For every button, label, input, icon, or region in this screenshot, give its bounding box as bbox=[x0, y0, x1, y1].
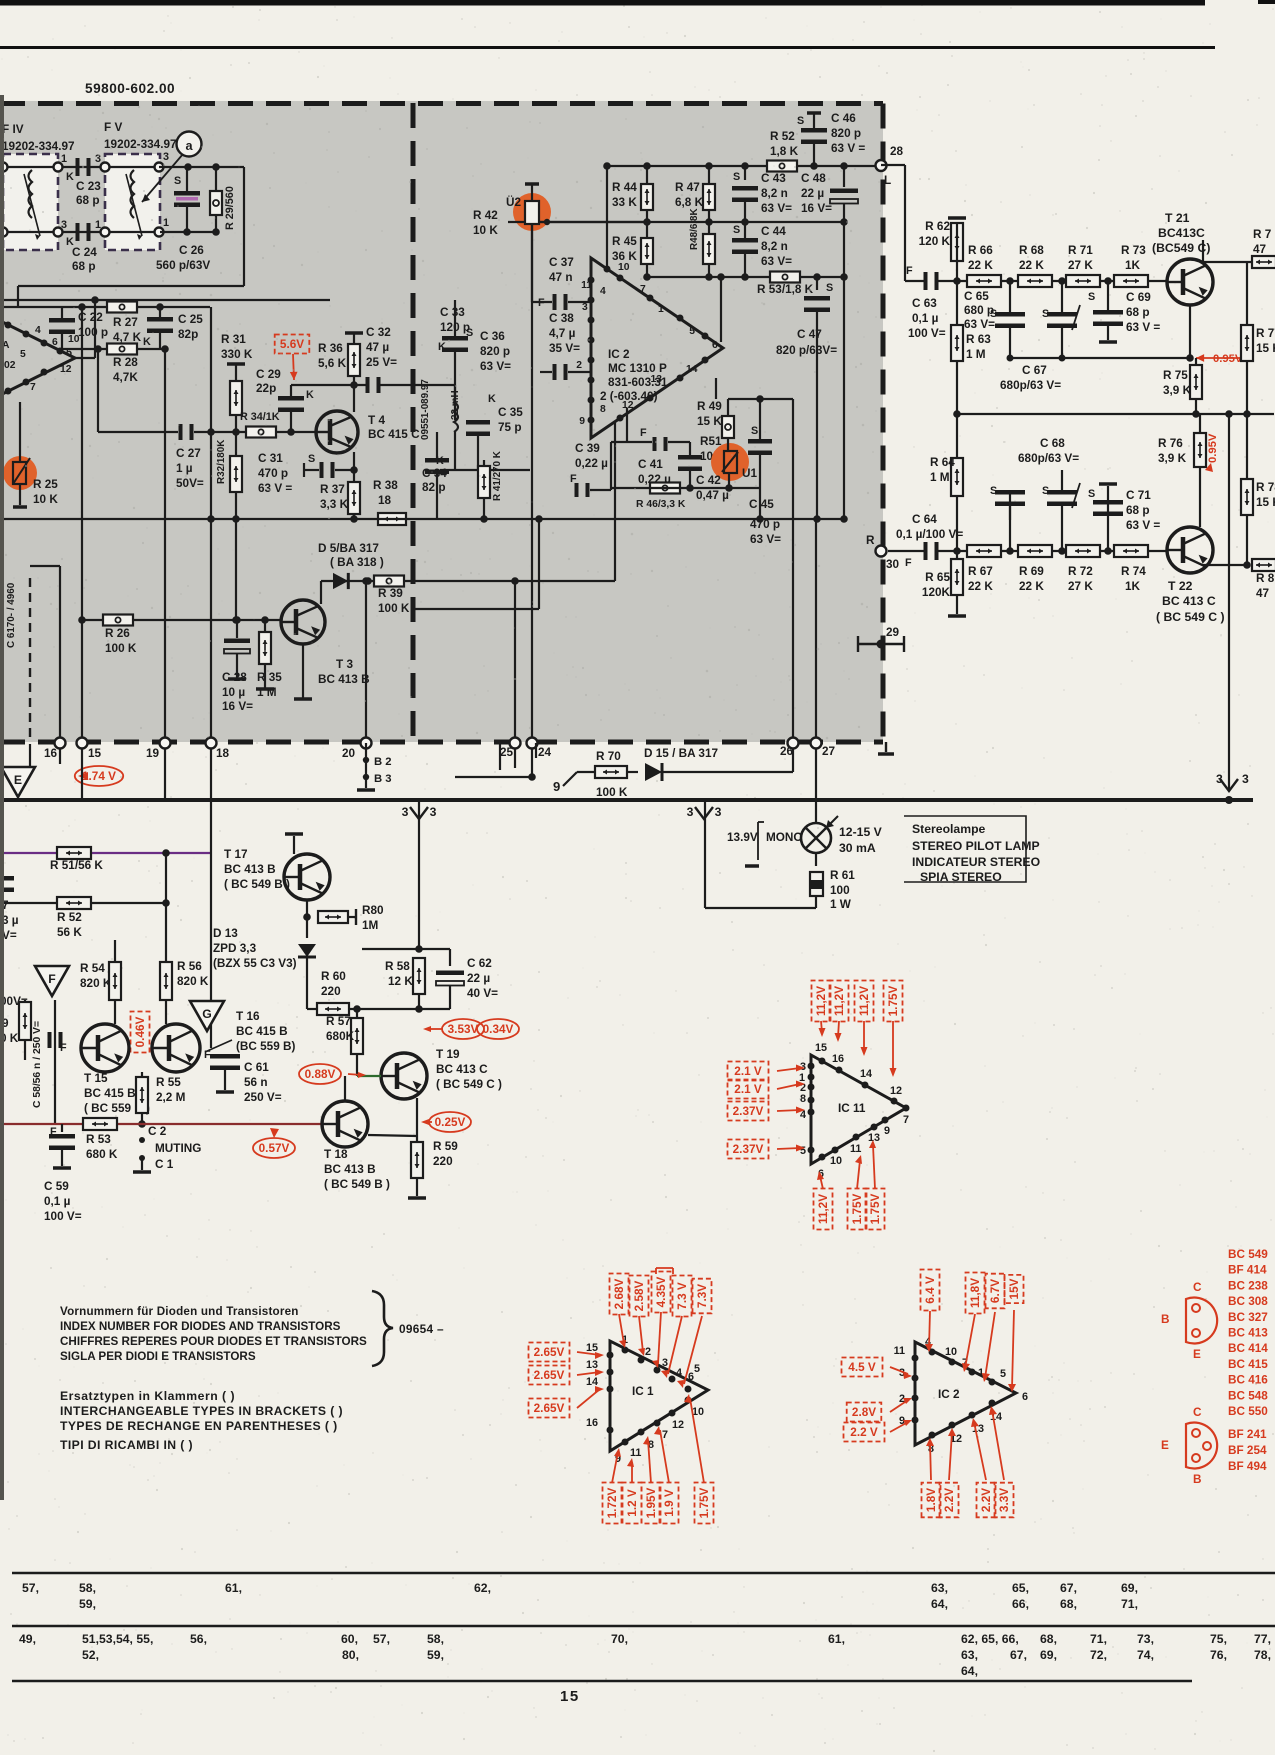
svg-text:10: 10 bbox=[618, 262, 630, 273]
svg-text:K: K bbox=[438, 341, 446, 353]
svg-text:2.37V: 2.37V bbox=[733, 1105, 764, 1118]
svg-text:61,: 61, bbox=[225, 1581, 242, 1595]
svg-text:BC 413 C: BC 413 C bbox=[436, 1063, 488, 1076]
svg-text:F IV: F IV bbox=[2, 123, 24, 136]
svg-text:R 63: R 63 bbox=[966, 333, 991, 346]
svg-text:C 59: C 59 bbox=[44, 1180, 69, 1193]
svg-text:1.2 V: 1.2 V bbox=[626, 1489, 639, 1517]
svg-text:4,7K: 4,7K bbox=[113, 371, 138, 384]
svg-text:22 mH: 22 mH bbox=[450, 390, 461, 420]
svg-text:L: L bbox=[884, 174, 891, 187]
svg-text:BF 494: BF 494 bbox=[1228, 1460, 1267, 1473]
svg-text:C 42: C 42 bbox=[696, 474, 721, 487]
svg-text:11: 11 bbox=[581, 280, 592, 291]
svg-text:F: F bbox=[640, 427, 647, 439]
svg-text:K: K bbox=[306, 389, 314, 401]
svg-text:K: K bbox=[436, 455, 444, 467]
svg-text:10 K: 10 K bbox=[473, 224, 498, 237]
svg-text:75 p: 75 p bbox=[498, 421, 522, 434]
svg-text:220: 220 bbox=[321, 985, 341, 998]
svg-text:63 V=: 63 V= bbox=[761, 255, 792, 268]
svg-text:15 K: 15 K bbox=[697, 415, 722, 428]
svg-text:3: 3 bbox=[163, 151, 169, 163]
svg-text:58,: 58, bbox=[427, 1632, 444, 1646]
svg-text:BC 415 B: BC 415 B bbox=[236, 1025, 288, 1038]
svg-text:5: 5 bbox=[694, 1363, 700, 1375]
svg-text:MONO: MONO bbox=[766, 831, 803, 844]
svg-text:T 17: T 17 bbox=[224, 848, 248, 861]
svg-text:330 K: 330 K bbox=[221, 348, 253, 361]
svg-text:C 32: C 32 bbox=[366, 326, 391, 339]
svg-text:68 p: 68 p bbox=[72, 260, 96, 273]
svg-text:15: 15 bbox=[586, 1342, 598, 1354]
svg-text:C 23: C 23 bbox=[76, 180, 101, 193]
svg-text:S: S bbox=[733, 224, 740, 236]
svg-text:R 44: R 44 bbox=[612, 181, 637, 194]
svg-text:2.58V: 2.58V bbox=[633, 1280, 646, 1311]
svg-text:INTERCHANGEABLE TYPES IN BR: INTERCHANGEABLE TYPES IN BRACKETS ( ) bbox=[60, 1404, 343, 1418]
svg-text:C 61: C 61 bbox=[244, 1061, 269, 1074]
svg-text:2.2 V: 2.2 V bbox=[850, 1426, 878, 1439]
svg-text:57,: 57, bbox=[22, 1581, 39, 1595]
svg-text:3: 3 bbox=[715, 805, 722, 819]
svg-text:62,: 62, bbox=[474, 1581, 491, 1595]
svg-text:10 K: 10 K bbox=[33, 493, 58, 506]
svg-text:F: F bbox=[905, 557, 912, 569]
svg-text:4: 4 bbox=[35, 325, 41, 336]
svg-text:680 p: 680 p bbox=[964, 304, 994, 317]
svg-text:15 K: 15 K bbox=[1256, 342, 1275, 355]
svg-text:R: R bbox=[866, 534, 875, 547]
svg-text:680p/63 V=: 680p/63 V= bbox=[1000, 379, 1061, 392]
svg-text:R 64: R 64 bbox=[930, 456, 955, 469]
svg-text:47: 47 bbox=[1253, 243, 1267, 256]
svg-text:G: G bbox=[202, 1007, 212, 1021]
svg-text:R 72: R 72 bbox=[1068, 565, 1093, 578]
svg-text:C 31: C 31 bbox=[258, 452, 283, 465]
svg-text:3.53V: 3.53V bbox=[448, 1023, 479, 1036]
svg-text:CHIFFRES REPERES POUR DIODES E: CHIFFRES REPERES POUR DIODES ET TRANSIST… bbox=[60, 1335, 367, 1348]
svg-text:1K: 1K bbox=[1125, 580, 1141, 593]
svg-text:3: 3 bbox=[95, 153, 101, 165]
svg-text:25 V=: 25 V= bbox=[366, 356, 397, 369]
svg-text:B: B bbox=[1193, 1473, 1202, 1486]
svg-text:BC 414: BC 414 bbox=[1228, 1342, 1268, 1355]
svg-text:1M: 1M bbox=[362, 919, 378, 932]
svg-text:15: 15 bbox=[88, 747, 102, 760]
svg-text:B 2: B 2 bbox=[374, 756, 392, 768]
svg-text:5,6 K: 5,6 K bbox=[318, 357, 347, 370]
svg-text:100 V=: 100 V= bbox=[908, 327, 946, 340]
svg-text:S: S bbox=[1042, 485, 1049, 497]
svg-text:1: 1 bbox=[163, 217, 169, 229]
svg-text:R 73: R 73 bbox=[1121, 244, 1146, 257]
svg-text:R 68: R 68 bbox=[1019, 244, 1044, 257]
svg-text:6: 6 bbox=[52, 337, 58, 348]
svg-text:15 K: 15 K bbox=[1256, 496, 1275, 509]
svg-text:F: F bbox=[48, 972, 56, 986]
svg-text:BC 415 C: BC 415 C bbox=[368, 428, 420, 441]
svg-text:R 53/1,8 K: R 53/1,8 K bbox=[757, 283, 814, 296]
svg-text:69,: 69, bbox=[1121, 1581, 1138, 1595]
svg-text:73,: 73, bbox=[1137, 1632, 1154, 1646]
svg-text:( BC 549 B ): ( BC 549 B ) bbox=[324, 1178, 390, 1191]
svg-text:68 p: 68 p bbox=[1126, 504, 1150, 517]
svg-text:82 p: 82 p bbox=[422, 481, 446, 494]
svg-text:5: 5 bbox=[689, 326, 695, 337]
svg-text:56,: 56, bbox=[190, 1632, 207, 1646]
svg-text:1 W: 1 W bbox=[830, 898, 852, 911]
svg-text:680p/63 V=: 680p/63 V= bbox=[1018, 452, 1079, 465]
svg-text:0.57V: 0.57V bbox=[259, 1142, 290, 1155]
svg-text:0,1 µ/100 V=: 0,1 µ/100 V= bbox=[896, 528, 963, 541]
svg-text:BC413C: BC413C bbox=[1158, 226, 1205, 240]
svg-text:C 48: C 48 bbox=[801, 172, 826, 185]
svg-text:C 43: C 43 bbox=[761, 172, 786, 185]
svg-text:B: B bbox=[1161, 1313, 1170, 1326]
svg-text:T 3: T 3 bbox=[336, 658, 353, 671]
svg-text:52,: 52, bbox=[82, 1648, 99, 1662]
svg-text:T 15: T 15 bbox=[84, 1072, 108, 1085]
svg-text:S: S bbox=[1088, 488, 1095, 500]
svg-text:D 15 / BA 317: D 15 / BA 317 bbox=[644, 747, 718, 760]
svg-text:3: 3 bbox=[430, 805, 437, 819]
svg-text:47 n: 47 n bbox=[549, 271, 573, 284]
svg-text:100 K: 100 K bbox=[596, 786, 628, 799]
svg-text:D 5/BA 317: D 5/BA 317 bbox=[318, 542, 379, 555]
svg-text:R 62: R 62 bbox=[925, 220, 950, 233]
svg-text:19202-334.97: 19202-334.97 bbox=[2, 140, 75, 153]
svg-text:02: 02 bbox=[4, 360, 16, 371]
svg-text:R 7: R 7 bbox=[1253, 228, 1272, 241]
svg-text:66,: 66, bbox=[1012, 1597, 1029, 1611]
svg-text:C 39: C 39 bbox=[575, 442, 600, 455]
svg-text:16 V=: 16 V= bbox=[222, 700, 253, 713]
svg-text:100 V=: 100 V= bbox=[44, 1210, 82, 1223]
svg-text:3: 3 bbox=[61, 219, 67, 231]
svg-text:7: 7 bbox=[640, 284, 646, 295]
svg-text:R 52: R 52 bbox=[770, 130, 795, 143]
svg-text:0,1 µ: 0,1 µ bbox=[912, 312, 939, 325]
svg-text:R 37: R 37 bbox=[320, 483, 345, 496]
svg-text:C 25: C 25 bbox=[178, 313, 203, 326]
svg-text:F V: F V bbox=[104, 121, 122, 134]
svg-text:09654 –: 09654 – bbox=[399, 1322, 444, 1336]
svg-text:R 27: R 27 bbox=[113, 316, 138, 329]
svg-text:11,2V: 11,2V bbox=[815, 986, 828, 1016]
svg-text:( BC 549 C ): ( BC 549 C ) bbox=[436, 1078, 502, 1091]
svg-text:5: 5 bbox=[20, 349, 26, 360]
svg-text:BC 548: BC 548 bbox=[1228, 1389, 1268, 1402]
svg-text:T 21: T 21 bbox=[1165, 211, 1190, 225]
svg-text:8: 8 bbox=[800, 1093, 806, 1105]
svg-text:1.75V: 1.75V bbox=[698, 1487, 711, 1518]
svg-text:R 69: R 69 bbox=[1019, 565, 1044, 578]
svg-text:57,: 57, bbox=[373, 1632, 390, 1646]
svg-text:Ü2: Ü2 bbox=[506, 196, 521, 209]
svg-text:1: 1 bbox=[61, 153, 67, 165]
svg-text:56 K: 56 K bbox=[57, 926, 82, 939]
svg-text:3: 3 bbox=[1216, 772, 1223, 786]
svg-text:680K: 680K bbox=[326, 1030, 355, 1043]
svg-text:1: 1 bbox=[95, 219, 101, 231]
svg-text:S: S bbox=[797, 115, 804, 127]
svg-text:13.9V: 13.9V bbox=[727, 831, 758, 844]
svg-text:49,: 49, bbox=[19, 1632, 36, 1646]
svg-text:82p: 82p bbox=[178, 328, 198, 341]
svg-text:T 22: T 22 bbox=[1168, 579, 1193, 593]
svg-text:0.88V: 0.88V bbox=[305, 1068, 336, 1081]
svg-text:1.75V: 1.75V bbox=[887, 985, 900, 1016]
svg-text:11,2V: 11,2V bbox=[858, 986, 871, 1016]
svg-text:2.65V: 2.65V bbox=[534, 1346, 565, 1359]
svg-text:BC 327: BC 327 bbox=[1228, 1311, 1268, 1324]
svg-text:67,: 67, bbox=[1010, 1648, 1027, 1662]
svg-text:5: 5 bbox=[1000, 1368, 1006, 1380]
svg-text:69,: 69, bbox=[1040, 1648, 1057, 1662]
svg-text:R48/6,8K: R48/6,8K bbox=[689, 207, 700, 250]
svg-text:9: 9 bbox=[884, 1125, 890, 1137]
svg-text:0,47 µ: 0,47 µ bbox=[696, 489, 729, 502]
svg-text:3: 3 bbox=[402, 805, 409, 819]
svg-text:14: 14 bbox=[586, 1376, 598, 1388]
svg-text:E: E bbox=[1161, 1439, 1169, 1452]
svg-text:C 1: C 1 bbox=[155, 1158, 174, 1171]
svg-text:E: E bbox=[1193, 1348, 1201, 1361]
svg-text:BC 308: BC 308 bbox=[1228, 1295, 1268, 1308]
svg-text:R 35: R 35 bbox=[257, 671, 282, 684]
svg-text:BC 413 C: BC 413 C bbox=[1162, 594, 1216, 608]
svg-text:Ersatztypen in Klammern ( ): Ersatztypen in Klammern ( ) bbox=[60, 1389, 235, 1403]
svg-text:1 M: 1 M bbox=[966, 348, 986, 361]
svg-text:63,: 63, bbox=[931, 1581, 948, 1595]
svg-text:63 V =: 63 V = bbox=[1126, 519, 1160, 532]
svg-text:100: 100 bbox=[830, 884, 850, 897]
svg-text:S: S bbox=[1042, 308, 1049, 320]
svg-text:BC 416: BC 416 bbox=[1228, 1374, 1268, 1387]
svg-text:R 54: R 54 bbox=[80, 962, 105, 975]
svg-text:IC 1: IC 1 bbox=[632, 1385, 654, 1398]
svg-text:16: 16 bbox=[44, 747, 58, 760]
svg-text:11,8V: 11,8V bbox=[969, 1278, 982, 1308]
svg-text:16 V=: 16 V= bbox=[801, 202, 832, 215]
svg-text:V=: V= bbox=[2, 929, 17, 942]
svg-text:3,9 K: 3,9 K bbox=[1163, 384, 1192, 397]
svg-text:2,2 M: 2,2 M bbox=[156, 1091, 185, 1104]
svg-text:3: 3 bbox=[662, 1357, 668, 1369]
svg-text:2.37V: 2.37V bbox=[733, 1143, 764, 1156]
svg-text:C 33: C 33 bbox=[440, 306, 465, 319]
svg-text:R 29/560: R 29/560 bbox=[224, 186, 236, 230]
svg-text:100 K: 100 K bbox=[105, 642, 137, 655]
svg-text:S: S bbox=[990, 485, 997, 497]
svg-text:120 K: 120 K bbox=[919, 235, 951, 248]
svg-text:R 53: R 53 bbox=[86, 1133, 111, 1146]
svg-text:R 41/270 K: R 41/270 K bbox=[492, 450, 503, 501]
svg-text:R 47: R 47 bbox=[675, 181, 700, 194]
svg-text:C 45: C 45 bbox=[749, 498, 774, 511]
svg-text:40 V=: 40 V= bbox=[467, 987, 498, 1000]
svg-text:820 p: 820 p bbox=[831, 127, 861, 140]
svg-text:0.34V: 0.34V bbox=[483, 1023, 514, 1036]
svg-text:( BC 549 B ): ( BC 549 B ) bbox=[224, 878, 290, 891]
svg-text:63 V =: 63 V = bbox=[258, 482, 292, 495]
svg-text:8,2 n: 8,2 n bbox=[761, 187, 788, 200]
svg-text:22 µ: 22 µ bbox=[801, 187, 824, 200]
svg-text:220: 220 bbox=[433, 1155, 453, 1168]
svg-text:C 62: C 62 bbox=[467, 957, 492, 970]
svg-text:60,: 60, bbox=[341, 1632, 358, 1646]
svg-text:ZPD 3,3: ZPD 3,3 bbox=[213, 942, 257, 955]
svg-text:3.3V: 3.3V bbox=[998, 1488, 1011, 1512]
svg-text:F: F bbox=[204, 1049, 211, 1061]
svg-text:59800-602.00: 59800-602.00 bbox=[85, 81, 175, 96]
svg-text:Stereolampe: Stereolampe bbox=[912, 822, 986, 836]
svg-text:F: F bbox=[906, 265, 913, 277]
svg-text:47 µ: 47 µ bbox=[366, 341, 389, 354]
svg-text:7.3V: 7.3V bbox=[696, 1284, 709, 1308]
svg-text:S: S bbox=[1088, 291, 1095, 303]
svg-text:R 59: R 59 bbox=[433, 1140, 458, 1153]
svg-text:74,: 74, bbox=[1137, 1648, 1154, 1662]
svg-text:6.7V: 6.7V bbox=[989, 1279, 1002, 1303]
svg-text:(BC 559 B): (BC 559 B) bbox=[236, 1040, 296, 1053]
svg-text:80,: 80, bbox=[342, 1648, 359, 1662]
svg-text:S: S bbox=[751, 425, 758, 437]
svg-text:C 68: C 68 bbox=[1040, 437, 1065, 450]
svg-text:C: C bbox=[1193, 1406, 1202, 1419]
svg-text:SIGLA PER DIODI E TRANSISTORS: SIGLA PER DIODI E TRANSISTORS bbox=[60, 1350, 256, 1363]
svg-text:C 26: C 26 bbox=[179, 244, 204, 257]
svg-text:R 55: R 55 bbox=[156, 1076, 181, 1089]
svg-text:1,8 K: 1,8 K bbox=[770, 145, 799, 158]
svg-text:3,3 K: 3,3 K bbox=[320, 498, 349, 511]
svg-text:22 K: 22 K bbox=[1019, 580, 1044, 593]
svg-text:62, 65, 66,: 62, 65, 66, bbox=[961, 1632, 1019, 1646]
svg-text:16: 16 bbox=[586, 1417, 598, 1429]
svg-text:3: 3 bbox=[1242, 772, 1249, 786]
svg-text:BF 414: BF 414 bbox=[1228, 1264, 1267, 1277]
svg-text:50V=: 50V= bbox=[176, 477, 204, 490]
svg-text:1.9 V: 1.9 V bbox=[663, 1489, 676, 1517]
svg-text:R 46/3,3 K: R 46/3,3 K bbox=[636, 499, 686, 510]
svg-text:5.6V: 5.6V bbox=[280, 338, 304, 351]
svg-text:R 74: R 74 bbox=[1121, 565, 1146, 578]
svg-text:11: 11 bbox=[630, 1447, 641, 1459]
svg-text:R 61: R 61 bbox=[830, 869, 855, 882]
svg-text:2: 2 bbox=[645, 1346, 651, 1358]
svg-text:R 66: R 66 bbox=[968, 244, 993, 257]
svg-text:18: 18 bbox=[378, 494, 392, 507]
svg-text:C 34: C 34 bbox=[422, 467, 447, 480]
svg-text:67,: 67, bbox=[1060, 1581, 1077, 1595]
svg-text:22 µ: 22 µ bbox=[467, 972, 490, 985]
svg-text:3 µ: 3 µ bbox=[2, 914, 19, 927]
svg-text:2.1 V: 2.1 V bbox=[734, 1065, 762, 1078]
svg-text:12: 12 bbox=[672, 1419, 684, 1431]
svg-text:5: 5 bbox=[66, 347, 72, 359]
svg-text:D 13: D 13 bbox=[213, 927, 238, 940]
svg-text:BC 413 B: BC 413 B bbox=[324, 1163, 376, 1176]
svg-text:C 2: C 2 bbox=[148, 1125, 167, 1138]
svg-text:BC 238: BC 238 bbox=[1228, 1279, 1268, 1292]
svg-text:R 38: R 38 bbox=[373, 479, 398, 492]
svg-text:70,: 70, bbox=[611, 1632, 628, 1646]
svg-text:64,: 64, bbox=[931, 1597, 948, 1611]
svg-text:a: a bbox=[185, 139, 193, 153]
svg-text:0.95V: 0.95V bbox=[1213, 353, 1243, 365]
svg-text:R 26: R 26 bbox=[105, 627, 130, 640]
svg-text:K: K bbox=[66, 171, 74, 183]
svg-text:0.25V: 0.25V bbox=[435, 1116, 466, 1129]
svg-text:BC 549: BC 549 bbox=[1228, 1248, 1268, 1261]
svg-text:C 71: C 71 bbox=[1126, 489, 1151, 502]
svg-text:6: 6 bbox=[1022, 1391, 1028, 1403]
svg-text:6: 6 bbox=[712, 340, 718, 351]
svg-text:680 K: 680 K bbox=[86, 1148, 118, 1161]
svg-text:22 K: 22 K bbox=[968, 259, 993, 272]
svg-text:C 29: C 29 bbox=[256, 368, 281, 381]
svg-text:R 25: R 25 bbox=[33, 478, 58, 491]
svg-text:22 K: 22 K bbox=[968, 580, 993, 593]
svg-text:1.8V: 1.8V bbox=[925, 1488, 938, 1512]
svg-text:56 n: 56 n bbox=[244, 1076, 268, 1089]
svg-text:68 p: 68 p bbox=[1126, 306, 1150, 319]
svg-text:(BZX 55 C3 V3): (BZX 55 C3 V3) bbox=[213, 957, 297, 970]
svg-text:470 p: 470 p bbox=[750, 518, 780, 531]
svg-text:11: 11 bbox=[850, 1143, 861, 1155]
svg-text:77,: 77, bbox=[1254, 1632, 1271, 1646]
svg-text:68 p: 68 p bbox=[76, 194, 100, 207]
svg-text:63,: 63, bbox=[961, 1648, 978, 1662]
svg-text:68,: 68, bbox=[1060, 1597, 1077, 1611]
svg-text:C 65: C 65 bbox=[964, 290, 989, 303]
svg-text:120K: 120K bbox=[922, 586, 951, 599]
svg-text:2: 2 bbox=[576, 360, 582, 371]
svg-text:R 31: R 31 bbox=[221, 333, 246, 346]
svg-text:65,: 65, bbox=[1012, 1581, 1029, 1595]
svg-text:63 V=: 63 V= bbox=[761, 202, 792, 215]
svg-text:( BC 549 C ): ( BC 549 C ) bbox=[1156, 610, 1225, 624]
svg-text:1.95V: 1.95V bbox=[645, 1487, 658, 1518]
svg-text:1.72V: 1.72V bbox=[606, 1487, 619, 1518]
svg-text:R 58: R 58 bbox=[385, 960, 410, 973]
svg-text:15V: 15V bbox=[1008, 1278, 1021, 1299]
svg-text:1K: 1K bbox=[1125, 259, 1141, 272]
svg-text:R 75: R 75 bbox=[1163, 369, 1188, 382]
svg-text:C 44: C 44 bbox=[761, 225, 786, 238]
svg-text:10: 10 bbox=[945, 1346, 957, 1358]
svg-text:4: 4 bbox=[600, 286, 606, 297]
svg-text:2.65V: 2.65V bbox=[534, 1369, 565, 1382]
svg-text:U1: U1 bbox=[742, 467, 757, 480]
svg-text:R 60: R 60 bbox=[321, 970, 346, 983]
svg-text:R 70: R 70 bbox=[596, 750, 621, 763]
svg-text:12: 12 bbox=[890, 1085, 902, 1097]
svg-text:4,7 µ: 4,7 µ bbox=[549, 327, 576, 340]
svg-text:100 K: 100 K bbox=[378, 602, 410, 615]
svg-text:9: 9 bbox=[579, 416, 585, 427]
svg-text:2.2V: 2.2V bbox=[943, 1488, 956, 1512]
svg-text:13: 13 bbox=[586, 1359, 598, 1371]
svg-text:R 49: R 49 bbox=[697, 400, 722, 413]
svg-text:22p: 22p bbox=[256, 382, 276, 395]
svg-text:MUTING: MUTING bbox=[155, 1142, 201, 1155]
svg-text:3,9 K: 3,9 K bbox=[1158, 452, 1187, 465]
svg-text:C 6170- / 4960: C 6170- / 4960 bbox=[6, 582, 17, 648]
svg-text:30 mA: 30 mA bbox=[839, 841, 876, 855]
svg-text:63 V=: 63 V= bbox=[964, 318, 995, 331]
